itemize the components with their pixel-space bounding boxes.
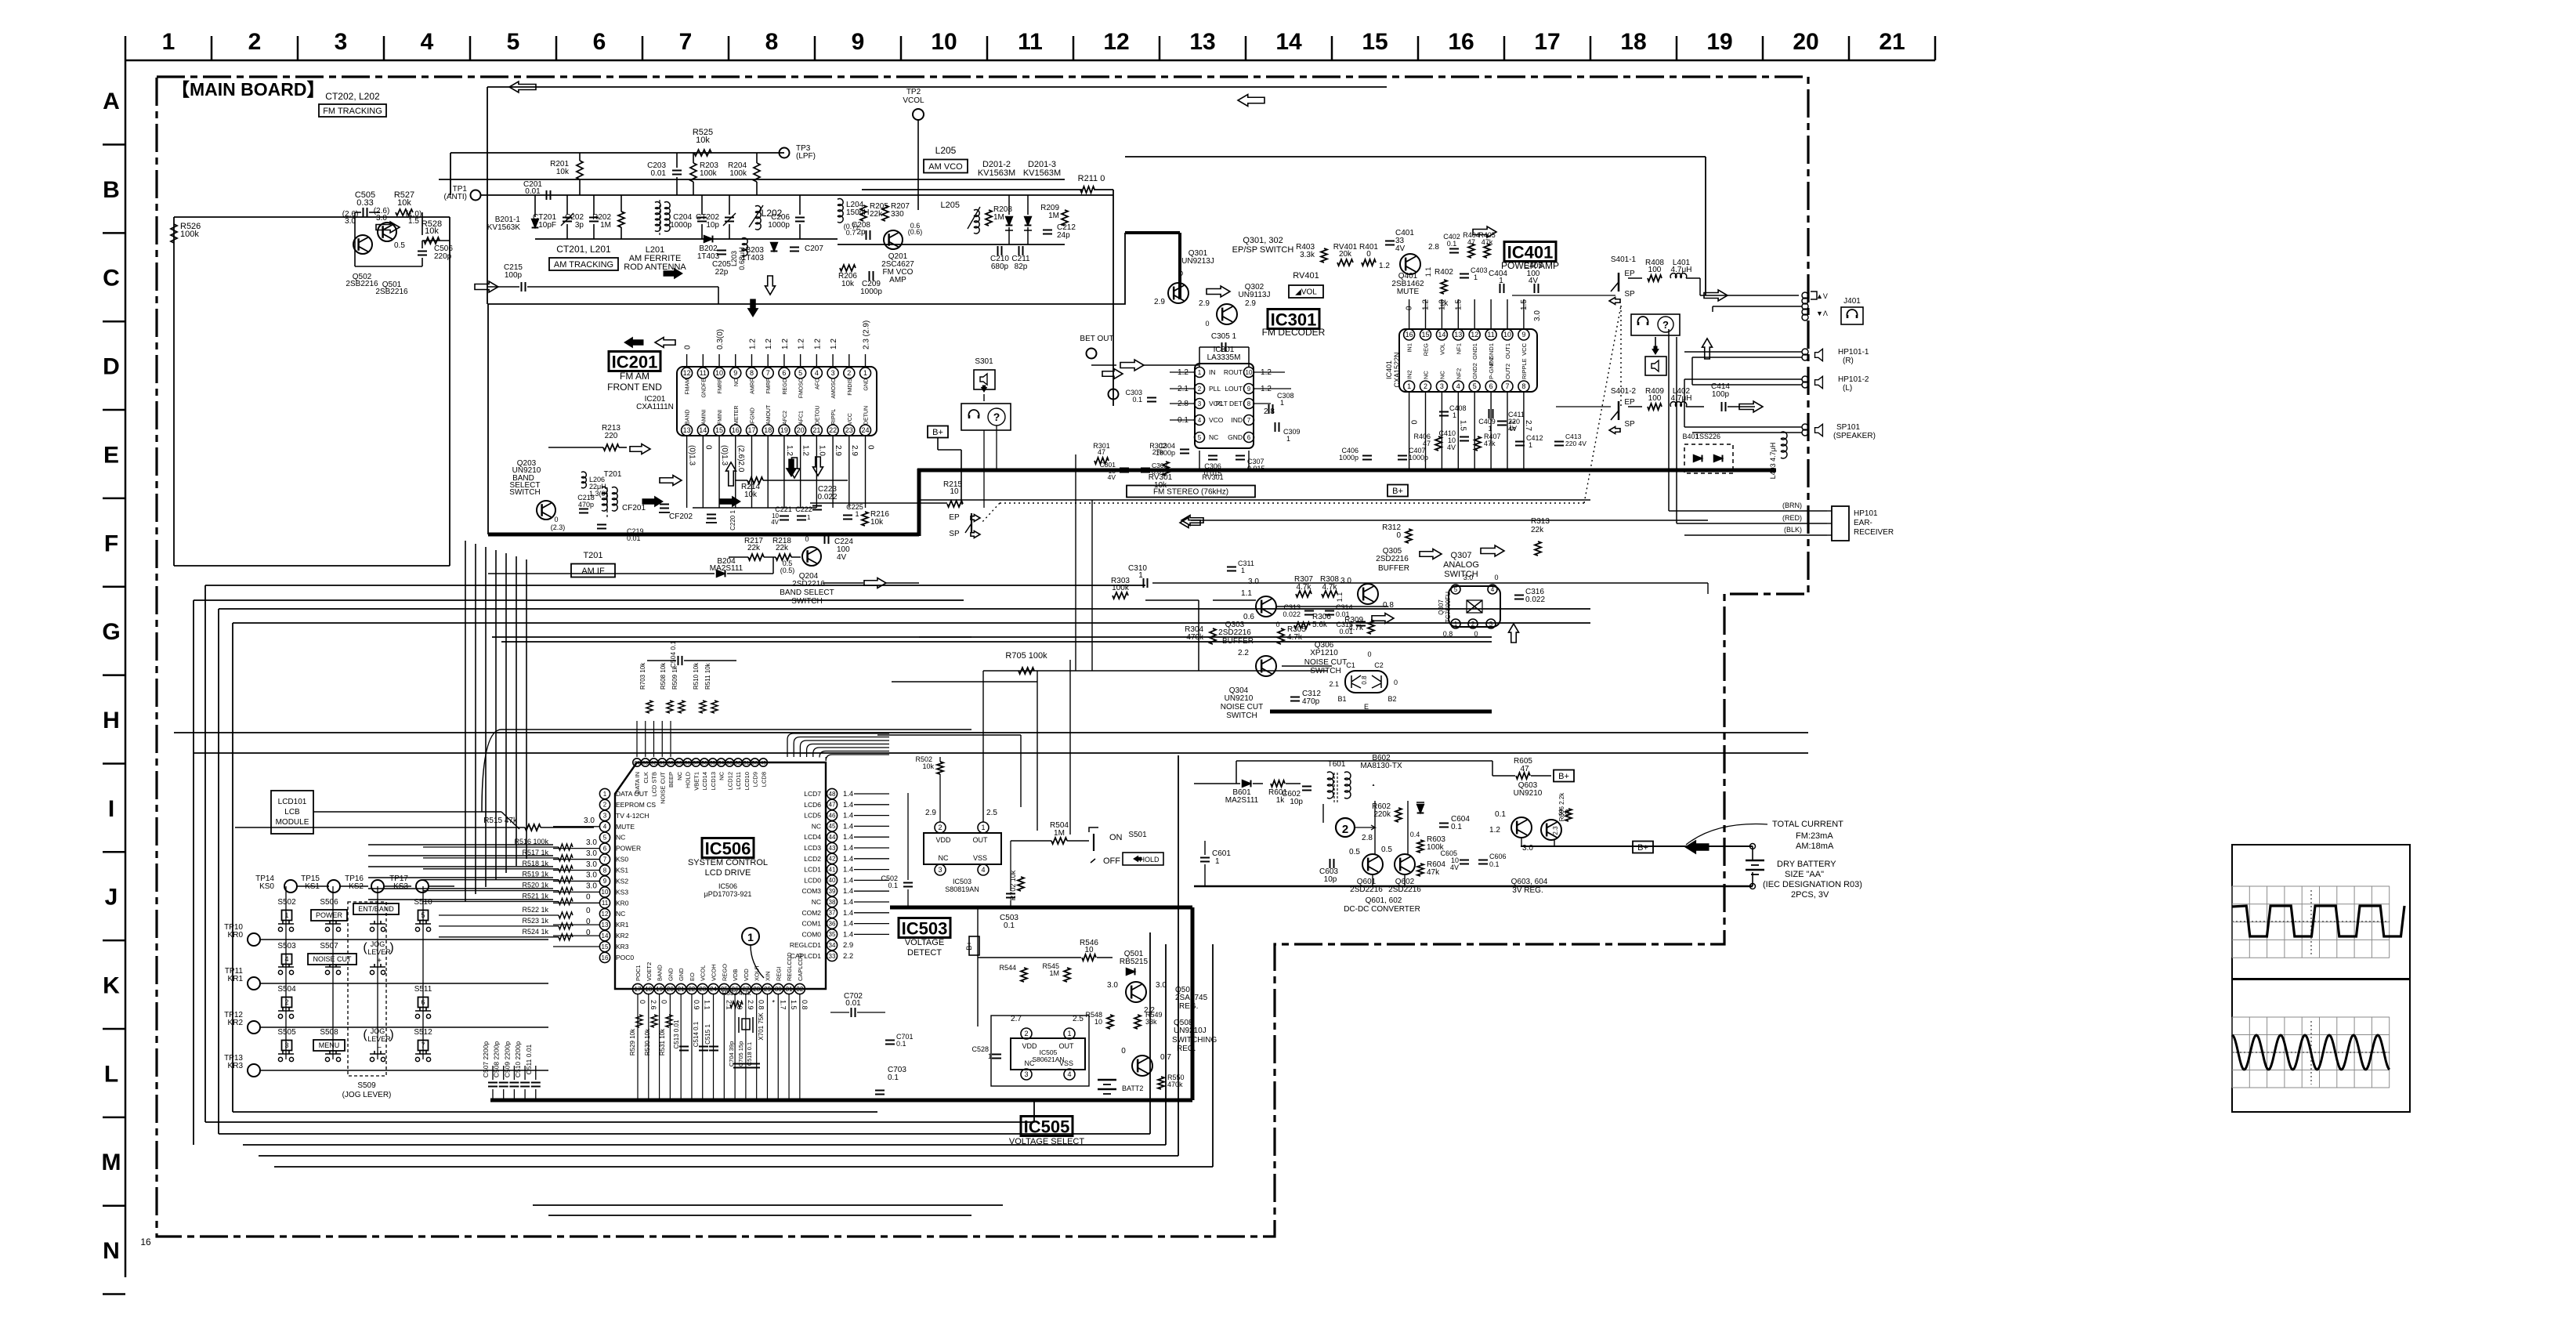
svg-text:KR2: KR2 xyxy=(228,1019,244,1027)
svg-text:R517 1k: R517 1k xyxy=(522,849,548,856)
svg-text:KR0: KR0 xyxy=(228,931,244,940)
svg-text:28: 28 xyxy=(753,986,760,993)
svg-text:LCD8: LCD8 xyxy=(760,772,767,787)
svg-text:B+: B+ xyxy=(965,941,973,950)
svg-text:D: D xyxy=(103,354,120,380)
svg-text:0.1: 0.1 xyxy=(888,882,898,889)
svg-text:2.3 (2.9): 2.3 (2.9) xyxy=(863,320,871,349)
svg-text:2: 2 xyxy=(1198,386,1202,393)
svg-text:4.7k: 4.7k xyxy=(1287,633,1303,642)
svg-text:AMRF: AMRF xyxy=(750,378,755,394)
svg-text:R521 1k: R521 1k xyxy=(522,893,548,900)
arrow band2 xyxy=(864,578,886,588)
testpoint TP13 xyxy=(248,1064,260,1077)
wire hp net xyxy=(1691,337,1693,357)
svg-text:RV401: RV401 xyxy=(1293,271,1319,281)
control wire bundle vertical xyxy=(465,541,466,901)
cap C311 C310 xyxy=(1227,567,1236,568)
svg-text:(BLK): (BLK) xyxy=(1784,526,1802,534)
svg-text:47: 47 xyxy=(1520,765,1529,773)
svg-text:ROUT: ROUT xyxy=(1224,368,1243,376)
svg-text:0.1: 0.1 xyxy=(888,1074,899,1082)
svg-text:FMAM: FMAM xyxy=(686,378,691,395)
arrow mid left xyxy=(376,222,400,233)
svg-text:R544: R544 xyxy=(999,964,1016,972)
svg-text:0: 0 xyxy=(1409,420,1418,425)
svg-text:IND: IND xyxy=(1231,416,1243,424)
svg-text:FMRF: FMRF xyxy=(766,378,772,393)
svg-text:LCD3: LCD3 xyxy=(804,844,821,852)
svg-text:43: 43 xyxy=(829,845,836,852)
svg-text:IC201: IC201 xyxy=(612,353,658,372)
resistor R216 xyxy=(862,512,868,526)
arrow band sel xyxy=(655,338,675,348)
svg-text:4.7μH: 4.7μH xyxy=(1671,266,1692,274)
svg-text:3: 3 xyxy=(284,1041,288,1049)
res R605 xyxy=(1516,773,1530,779)
svg-text:OFF: OFF xyxy=(1103,856,1120,866)
resistor R525 xyxy=(694,150,711,156)
svg-text:3.0: 3.0 xyxy=(1156,981,1167,990)
svg-text:51: 51 xyxy=(743,760,750,766)
svg-text:20: 20 xyxy=(667,986,674,993)
svg-text:19: 19 xyxy=(1706,29,1732,55)
svg-text:17: 17 xyxy=(747,426,755,434)
svg-text:470p: 470p xyxy=(1302,697,1320,706)
svg-text:I: I xyxy=(108,796,114,822)
svg-text:METER: METER xyxy=(734,406,740,425)
svg-text:39: 39 xyxy=(829,888,836,895)
svg-text:1: 1 xyxy=(162,29,175,55)
svg-text:1: 1 xyxy=(1474,273,1478,281)
svg-text:COM0: COM0 xyxy=(801,930,821,938)
capacitor C207 xyxy=(790,247,799,248)
res R603 xyxy=(1417,840,1424,853)
svg-text:KS2: KS2 xyxy=(616,877,628,885)
svg-text:0.4: 0.4 xyxy=(1410,831,1420,838)
svg-text:VCC: VCC xyxy=(1521,342,1528,355)
svg-text:0: 0 xyxy=(1205,320,1209,328)
svg-text:LCD4: LCD4 xyxy=(804,833,821,841)
svg-text:FM DECODER: FM DECODER xyxy=(1262,327,1326,338)
svg-text:42: 42 xyxy=(829,856,836,863)
svg-text:13: 13 xyxy=(683,426,691,434)
svg-text:22k: 22k xyxy=(1531,526,1544,534)
res R504 xyxy=(1051,838,1067,844)
inductor L204 xyxy=(838,199,843,206)
arrow R213 xyxy=(630,444,650,454)
svg-text:LCD DRIVE: LCD DRIVE xyxy=(705,868,751,878)
svg-text:(LPF): (LPF) xyxy=(796,152,816,161)
svg-text:2.9: 2.9 xyxy=(834,445,842,456)
svg-text:R606 2.2k: R606 2.2k xyxy=(1558,792,1565,821)
transistor Q304 xyxy=(1256,656,1276,676)
svg-text:10: 10 xyxy=(1094,1018,1102,1026)
cap C315 xyxy=(1356,621,1366,623)
svg-text:10: 10 xyxy=(602,889,609,896)
svg-text:15: 15 xyxy=(602,943,609,950)
svg-text:0: 0 xyxy=(586,893,591,902)
svg-text:KR3: KR3 xyxy=(228,1062,244,1070)
svg-text:0: 0 xyxy=(704,445,712,450)
cap C403 xyxy=(1460,273,1469,275)
svg-text:1.2: 1.2 xyxy=(813,339,822,349)
svg-text:4V: 4V xyxy=(1529,277,1539,285)
transistor Q305 xyxy=(1358,584,1378,604)
circled 2 marker xyxy=(1336,818,1355,837)
svg-text:0.1: 0.1 xyxy=(1132,396,1142,404)
svg-text:B+: B+ xyxy=(1392,487,1403,496)
svg-text:10: 10 xyxy=(1246,369,1253,376)
svg-text:DC-DC CONVERTER: DC-DC CONVERTER xyxy=(1344,905,1420,914)
svg-text:16: 16 xyxy=(732,426,740,434)
caps C406 C407 xyxy=(1362,455,1372,457)
res R606 xyxy=(1565,809,1572,821)
svg-text:14: 14 xyxy=(1438,331,1445,339)
svg-text:R402: R402 xyxy=(1435,268,1453,277)
testpoint TP14 xyxy=(284,880,297,893)
svg-text:LCD14: LCD14 xyxy=(701,772,708,790)
svg-text:C514 0.1: C514 0.1 xyxy=(693,1021,700,1047)
resistor ladder R516-R524 xyxy=(559,844,573,850)
svg-text:36: 36 xyxy=(829,920,836,927)
svg-text:0: 0 xyxy=(1406,306,1414,310)
svg-text:UN9210: UN9210 xyxy=(1225,694,1254,703)
svg-text:2PCS, 3V: 2PCS, 3V xyxy=(1791,890,1829,900)
svg-text:PLL: PLL xyxy=(1209,385,1221,393)
svg-text:REG.: REG. xyxy=(1177,1045,1196,1053)
svg-text:C515 1: C515 1 xyxy=(704,1024,711,1045)
arrow down to spk xyxy=(1655,337,1656,346)
resistor R202 xyxy=(618,212,624,227)
transistor Q401 xyxy=(1400,254,1420,274)
svg-text:MUTE: MUTE xyxy=(616,823,635,831)
HOLD label xyxy=(1123,853,1163,865)
res R532 xyxy=(730,1001,743,1008)
svg-text:VOLTAGE: VOLTAGE xyxy=(905,938,944,947)
svg-text:680p: 680p xyxy=(991,263,1009,271)
svg-text:UN9210J: UN9210J xyxy=(1174,1027,1207,1035)
svg-text:7: 7 xyxy=(1505,382,1509,390)
svg-text:55: 55 xyxy=(710,760,716,766)
svg-text:4V: 4V xyxy=(837,553,847,562)
svg-text:M: M xyxy=(102,1150,121,1175)
inductor L205 var xyxy=(974,210,979,217)
svg-text:24: 24 xyxy=(862,426,870,434)
svg-text:8: 8 xyxy=(750,369,754,377)
svg-text:3.0: 3.0 xyxy=(586,849,597,858)
svg-text:2: 2 xyxy=(284,998,288,1006)
svg-text:KV1563M: KV1563M xyxy=(1023,168,1061,178)
curve to arrow xyxy=(1686,824,1767,845)
res R544 R545 xyxy=(1021,968,1027,982)
transistor Q601 xyxy=(1362,854,1383,874)
svg-text:32: 32 xyxy=(796,986,803,993)
svg-text:0.7: 0.7 xyxy=(1160,1053,1171,1062)
svg-text:46: 46 xyxy=(829,812,836,819)
cap C701 xyxy=(885,1040,895,1041)
caps C313 C314 xyxy=(1304,610,1314,612)
wire Q501 block top xyxy=(174,216,450,218)
svg-text:GND2: GND2 xyxy=(1471,363,1478,379)
svg-text:1: 1 xyxy=(1453,411,1456,419)
wire loop left D xyxy=(233,622,1590,624)
svg-text:1.5: 1.5 xyxy=(790,1000,798,1010)
svg-text:C222: C222 xyxy=(795,505,812,513)
svg-text:−: − xyxy=(377,1044,382,1052)
svg-text:C513 0.01: C513 0.01 xyxy=(673,1019,680,1048)
svg-text:SP: SP xyxy=(1624,290,1635,299)
capacitor C223 xyxy=(812,505,822,507)
svg-text:C207: C207 xyxy=(805,244,823,253)
svg-text:47: 47 xyxy=(829,802,836,809)
divider wire 2b xyxy=(194,752,1808,754)
diode D501 xyxy=(1127,969,1135,976)
testpoint TP17 xyxy=(416,880,429,893)
svg-text:POWER: POWER xyxy=(616,845,641,853)
wire AM tune rail C201 xyxy=(481,194,1113,196)
arrow bplus xyxy=(1207,286,1230,297)
svg-text:10k: 10k xyxy=(841,280,855,288)
circled 1 marker xyxy=(742,928,759,945)
svg-text:(2.3): (2.3) xyxy=(551,523,566,531)
B+ rotated box xyxy=(969,936,979,955)
svg-text:C404: C404 xyxy=(1489,270,1507,278)
caps C507-C511 xyxy=(488,1082,497,1084)
wire R525 node line xyxy=(450,152,784,154)
analog switch Q307 body xyxy=(1449,586,1500,627)
svg-text:C509 2200p: C509 2200p xyxy=(503,1041,511,1078)
wire R211 net xyxy=(862,189,1082,190)
svg-text:C511 0.01: C511 0.01 xyxy=(525,1044,533,1074)
cap C404 xyxy=(1500,284,1501,293)
svg-text:ON: ON xyxy=(1109,833,1123,842)
svg-text:HOLD: HOLD xyxy=(1139,856,1160,864)
svg-text:POC1: POC1 xyxy=(635,965,642,981)
divider wire pair 1 xyxy=(492,636,1492,638)
svg-text:B: B xyxy=(103,177,120,203)
transistor Q301 xyxy=(1168,283,1189,303)
svg-text:2: 2 xyxy=(248,29,262,55)
svg-text:R531 10k: R531 10k xyxy=(659,1028,666,1055)
svg-text:FMOSC: FMOSC xyxy=(799,378,805,398)
bottom nest 1 xyxy=(233,1111,877,1113)
key switches grid xyxy=(285,886,287,1059)
svg-text:BUFFER: BUFFER xyxy=(1378,564,1409,573)
connector HP101-2 xyxy=(1802,376,1808,382)
svg-text:FM TRACKING: FM TRACKING xyxy=(323,107,382,116)
svg-text:EP: EP xyxy=(1624,398,1635,407)
svg-text:SWITCHING: SWITCHING xyxy=(1172,1036,1217,1045)
svg-text:BUFFER: BUFFER xyxy=(1222,637,1254,646)
svg-text:KS2: KS2 xyxy=(349,882,364,891)
svg-text:LA3335M: LA3335M xyxy=(1207,353,1241,362)
svg-text:0.022: 0.022 xyxy=(1283,610,1301,618)
svg-text:220p: 220p xyxy=(434,252,452,261)
svg-text:CF202: CF202 xyxy=(669,512,693,521)
svg-text:?: ? xyxy=(993,411,1000,423)
svg-text:2.7: 2.7 xyxy=(1524,420,1532,431)
svg-text:S501: S501 xyxy=(1128,831,1147,839)
waveform photo 1 (square wave) xyxy=(2232,845,2410,979)
R529-R531 xyxy=(636,1015,642,1027)
svg-text:R509 1k: R509 1k xyxy=(671,665,678,690)
IC506 pins xyxy=(599,788,610,798)
svg-text:X701 75K: X701 75K xyxy=(758,1012,765,1041)
svg-text:1.2: 1.2 xyxy=(1379,262,1390,270)
svg-text:MA8130-TX: MA8130-TX xyxy=(1360,762,1402,770)
svg-text:Q307: Q307 xyxy=(1451,551,1472,560)
svg-text:1: 1 xyxy=(807,514,811,521)
caps C704 C705 C518 xyxy=(733,1063,743,1065)
svg-text:(SPEAKER): (SPEAKER) xyxy=(1833,432,1876,440)
svg-text:47: 47 xyxy=(1467,238,1475,246)
bottom nest 3 xyxy=(219,1133,1150,1135)
svg-text:470k: 470k xyxy=(1167,1081,1183,1088)
svg-text:11: 11 xyxy=(1487,331,1494,339)
svg-text:R211 0: R211 0 xyxy=(1078,174,1105,183)
transformer T601 xyxy=(1327,772,1333,780)
svg-text:HP101-2: HP101-2 xyxy=(1838,375,1869,384)
svg-text:0: 0 xyxy=(639,1000,646,1004)
svg-text:54: 54 xyxy=(718,760,725,766)
svg-text:NC: NC xyxy=(812,822,821,830)
svg-text:9: 9 xyxy=(1521,331,1525,339)
svg-text:5: 5 xyxy=(1454,586,1458,593)
transistor Q604 xyxy=(1541,820,1561,840)
svg-text:1.5: 1.5 xyxy=(1454,299,1463,310)
capacitor C215 xyxy=(521,282,523,291)
svg-text:2.1: 2.1 xyxy=(1329,680,1339,688)
svg-text:5: 5 xyxy=(1198,434,1202,441)
IC506 body xyxy=(615,762,826,989)
svg-text:DATA OUT: DATA OUT xyxy=(616,790,648,798)
wire loop left B xyxy=(205,585,1145,586)
wire r705 corner xyxy=(1037,671,1038,831)
svg-text:FMINI: FMINI xyxy=(718,410,723,425)
svg-text:T201: T201 xyxy=(604,470,622,479)
transistor Q602 xyxy=(1395,854,1415,874)
svg-text:23: 23 xyxy=(845,426,853,434)
svg-text:XIN: XIN xyxy=(764,971,771,981)
svg-text:0.3(0): 0.3(0) xyxy=(716,329,725,349)
arrow batt up xyxy=(1373,784,1374,786)
cluster C304 C306 C307 xyxy=(1180,449,1189,451)
diode bridge D401 xyxy=(1684,444,1733,473)
svg-text:LCD10: LCD10 xyxy=(743,772,751,790)
svg-text:16: 16 xyxy=(1448,29,1474,55)
svg-text:4.7k: 4.7k xyxy=(1322,583,1338,592)
svg-text:GND: GND xyxy=(667,968,674,981)
svg-text:C528: C528 xyxy=(971,1045,989,1053)
wire top feedback line xyxy=(487,86,1387,88)
svg-text:0: 0 xyxy=(1394,679,1398,686)
svg-text:KS1: KS1 xyxy=(616,867,628,874)
svg-text:2SD2216: 2SD2216 xyxy=(1388,885,1421,894)
svg-text:11: 11 xyxy=(602,900,609,907)
capacitor C222 xyxy=(797,516,806,517)
svg-text:0: 0 xyxy=(684,345,693,349)
svg-text:C504 0.1: C504 0.1 xyxy=(669,640,677,668)
svg-text:IC401: IC401 xyxy=(1507,243,1554,263)
capacitor C211 xyxy=(1018,246,1020,255)
svg-text:LCD9: LCD9 xyxy=(752,772,759,787)
svg-text:R703 10k: R703 10k xyxy=(639,662,646,690)
svg-text:0.1: 0.1 xyxy=(1451,823,1462,831)
front end section box xyxy=(488,233,1125,304)
svg-text:13: 13 xyxy=(1189,29,1215,55)
svg-text:1.4: 1.4 xyxy=(843,887,853,896)
svg-text:R532 4.7k: R532 4.7k xyxy=(722,990,751,997)
svg-text:MUTE: MUTE xyxy=(1397,288,1420,296)
svg-text:0.8: 0.8 xyxy=(801,1000,809,1010)
svg-text:VDD: VDD xyxy=(1022,1042,1037,1050)
svg-text:2.9: 2.9 xyxy=(1199,299,1210,308)
svg-text:POC0: POC0 xyxy=(616,954,634,961)
svg-text:MENU: MENU xyxy=(319,1041,340,1049)
cap C703 xyxy=(875,1090,885,1092)
svg-text:2.5: 2.5 xyxy=(986,809,997,817)
svg-text:IC506: IC506 xyxy=(705,839,751,859)
svg-text:TP2: TP2 xyxy=(906,88,921,96)
svg-text:1.5: 1.5 xyxy=(1458,420,1467,431)
svg-text:49: 49 xyxy=(761,760,767,766)
svg-text:10: 10 xyxy=(715,369,723,377)
svg-text:): ) xyxy=(389,1028,393,1041)
svg-text:10k: 10k xyxy=(696,136,710,145)
svg-text:1: 1 xyxy=(1488,425,1492,433)
mute cluster RV401 xyxy=(1337,259,1353,266)
wire ic301 right stubs xyxy=(1254,371,1285,373)
svg-text:3p: 3p xyxy=(575,221,584,230)
svg-text:1000p: 1000p xyxy=(860,288,882,296)
svg-text:4: 4 xyxy=(603,824,607,831)
arrow S401 out xyxy=(1704,290,1728,301)
resistor R528 xyxy=(424,237,440,244)
svg-text:CXA1522N: CXA1522N xyxy=(1393,352,1401,387)
svg-text:6: 6 xyxy=(593,29,606,55)
svg-text:S506: S506 xyxy=(320,898,338,907)
varactor D201-2 sym xyxy=(1006,217,1013,226)
IC301 pins xyxy=(1195,368,1205,378)
svg-text:3.0: 3.0 xyxy=(1340,577,1351,585)
cluster C308 C309 xyxy=(1268,404,1270,414)
svg-text:61: 61 xyxy=(660,760,666,766)
svg-text:2SB2216: 2SB2216 xyxy=(346,280,378,288)
svg-text:UN9213J: UN9213J xyxy=(1181,257,1214,266)
svg-text:2.9: 2.9 xyxy=(747,1000,754,1010)
bottom nest 4 xyxy=(243,1144,1166,1146)
svg-text:A: A xyxy=(103,89,120,114)
svg-text:RV301: RV301 xyxy=(1202,473,1223,481)
svg-text:R529 10k: R529 10k xyxy=(629,1028,636,1055)
svg-text:9: 9 xyxy=(733,369,737,377)
svg-text:1.4: 1.4 xyxy=(843,930,853,939)
svg-text:6: 6 xyxy=(421,998,425,1006)
svg-text:3.0: 3.0 xyxy=(584,817,595,825)
cap C702 xyxy=(851,1008,852,1017)
svg-text:2.9: 2.9 xyxy=(843,941,853,950)
svg-text:82p: 82p xyxy=(1015,263,1028,271)
svg-text:2.9: 2.9 xyxy=(925,809,936,817)
svg-text:TOTAL CURRENT: TOTAL CURRENT xyxy=(1772,820,1843,829)
resistor R204 xyxy=(754,163,760,182)
svg-text:3: 3 xyxy=(335,29,348,55)
capacitor C312 xyxy=(1290,697,1300,698)
svg-text:1.2: 1.2 xyxy=(830,339,838,349)
svg-text:10p: 10p xyxy=(706,221,719,230)
svg-text:R530 10k: R530 10k xyxy=(644,1028,651,1055)
